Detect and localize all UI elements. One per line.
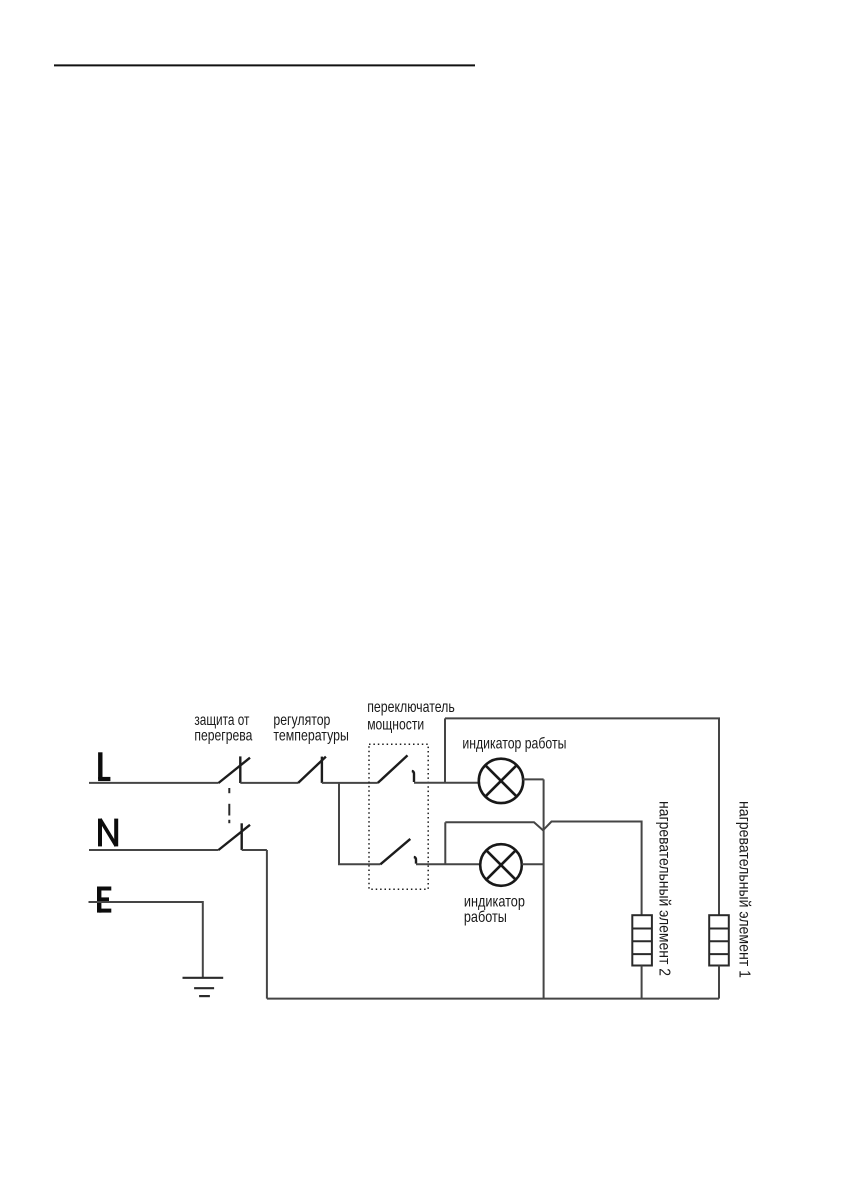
wire lamps common return down to bottom rail bbox=[543, 779, 545, 998]
top horizontal rule bbox=[54, 64, 475, 66]
node branch to lower switch bbox=[339, 783, 380, 864]
switch S1 overheat-protection (защита от перегрева) bbox=[219, 756, 251, 783]
svg-text:нагревательный элемент 2: нагревательный элемент 2 bbox=[656, 801, 673, 976]
node riser up to element-2 rail bbox=[444, 822, 446, 864]
svg-text:защита от: защита от bbox=[194, 712, 249, 729]
svg-text:температуры: температуры bbox=[273, 728, 349, 745]
switch S3b power selector lower bbox=[380, 839, 416, 864]
mechanical link dashed line bbox=[228, 788, 230, 823]
ground symbol bbox=[183, 978, 224, 996]
svg-text:регулятор: регулятор bbox=[273, 712, 330, 729]
wire L input bbox=[89, 782, 219, 784]
wire element 2 bottom lead bbox=[641, 966, 643, 999]
terminal label L bbox=[98, 752, 110, 779]
switch S2 temperature regulator bbox=[298, 757, 326, 783]
wire N riser down to bottom rail bbox=[266, 850, 268, 999]
wire S2 output to power switch bbox=[322, 782, 378, 784]
wire lamp1 output bbox=[523, 778, 544, 780]
wire N input bbox=[89, 849, 219, 851]
heating element R2 (нагревательный элемент 2) bbox=[632, 915, 652, 965]
wire S3b output to lamp 2 bbox=[416, 863, 480, 865]
bottom rail wire bbox=[267, 998, 719, 1000]
wire N switch output bbox=[242, 849, 267, 851]
element-2 rail with crossover hop bbox=[445, 822, 641, 916]
wire lamp2 output bbox=[522, 863, 544, 865]
switch S3a power selector upper bbox=[378, 755, 414, 783]
terminal label N bbox=[100, 819, 116, 847]
lamp H1 indicator bbox=[479, 759, 523, 803]
wire element 1 bottom lead bbox=[718, 966, 720, 999]
svg-text:перегрева: перегрева bbox=[194, 728, 252, 745]
lamp H2 indicator bbox=[480, 844, 522, 886]
svg-text:нагревательный элемент 1: нагревательный элемент 1 bbox=[736, 801, 753, 978]
terminal label E bbox=[99, 887, 111, 913]
wire S3a output to lamp 1 bbox=[414, 782, 479, 784]
svg-text:переключатель: переключатель bbox=[367, 699, 455, 716]
power switch dotted enclosure bbox=[369, 744, 428, 889]
switch S1b overheat-protection N pole bbox=[219, 823, 251, 850]
wire between S1 and S2 bbox=[240, 782, 298, 784]
node riser up to top rail bbox=[444, 718, 446, 782]
svg-text:индикатор работы: индикатор работы bbox=[462, 735, 566, 752]
svg-text:индикатор: индикатор bbox=[464, 894, 525, 911]
svg-text:работы: работы bbox=[464, 909, 507, 926]
svg-text:мощности: мощности bbox=[367, 717, 424, 734]
heating element R1 (нагревательный элемент 1) bbox=[709, 915, 729, 965]
wire E to ground bbox=[89, 902, 203, 978]
top rail wire to element 1 bbox=[445, 718, 719, 915]
